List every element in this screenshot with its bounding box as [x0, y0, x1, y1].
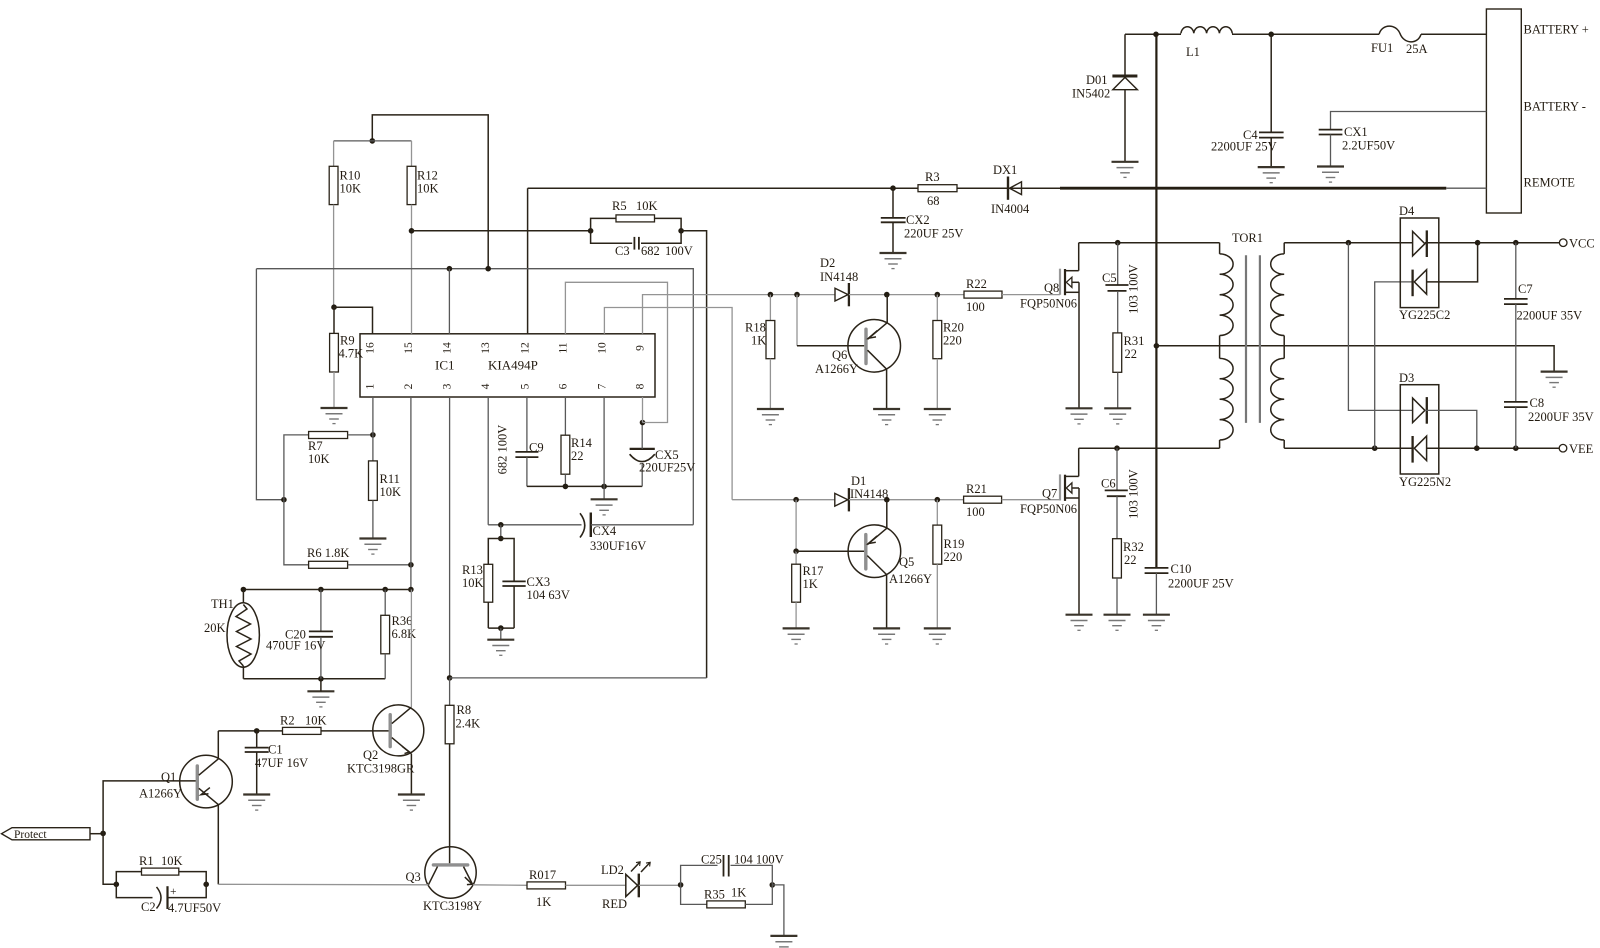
capacitor C5 103 100V	[1102, 243, 1141, 333]
resistor R6 1.8K	[284, 500, 411, 569]
node dot R6 pin2	[408, 562, 414, 568]
svg-text:330UF16V: 330UF16V	[590, 539, 646, 553]
wire LED to C25 R35	[639, 884, 681, 886]
svg-text:Q6: Q6	[832, 348, 847, 362]
resistor R12 10K	[407, 141, 438, 231]
node dot R5C3 left	[588, 228, 594, 234]
svg-text:220UF25V: 220UF25V	[639, 461, 695, 475]
wire left drop to R7 R6	[256, 269, 284, 500]
svg-text:7: 7	[597, 383, 609, 389]
svg-text:KTC3198GR: KTC3198GR	[347, 762, 415, 776]
wire lower row D1 to R21	[849, 499, 964, 501]
svg-text:220UF 25V: 220UF 25V	[904, 227, 963, 241]
svg-text:10K: 10K	[380, 485, 402, 499]
svg-text:103 100V: 103 100V	[1127, 264, 1141, 314]
ground under R13 CX3	[487, 640, 514, 656]
svg-text:R12: R12	[417, 169, 438, 183]
svg-text:1K: 1K	[536, 895, 551, 909]
svg-text:Q1: Q1	[161, 770, 176, 784]
svg-text:682 100V: 682 100V	[496, 425, 510, 475]
svg-text:+: +	[170, 886, 177, 898]
wire pin15 vertical	[411, 231, 413, 334]
ground center tap	[1541, 372, 1568, 388]
svg-text:682: 682	[641, 244, 660, 258]
ground under R20	[924, 409, 951, 425]
resistor R19 220	[933, 500, 964, 629]
svg-text:10K: 10K	[462, 576, 484, 590]
svg-text:R017: R017	[529, 868, 556, 882]
capacitor CX2 220UF 25V	[881, 188, 964, 253]
svg-text:15: 15	[403, 342, 415, 354]
node junction dot C4 top	[1268, 32, 1274, 38]
svg-text:10: 10	[597, 342, 609, 354]
svg-text:REMOTE: REMOTE	[1524, 176, 1576, 190]
svg-text:16: 16	[365, 342, 377, 354]
node dot R10 R12 top bar	[370, 138, 376, 144]
node dot R17 top	[793, 497, 799, 503]
ground under TH1 row	[307, 691, 334, 707]
ground under Q5	[873, 628, 900, 644]
svg-text:YG225C2: YG225C2	[1399, 308, 1450, 322]
transistor Q1 A1266Y	[139, 731, 232, 884]
transformer TOR1 primary	[1220, 231, 1263, 448]
wire ground stub pin7	[603, 486, 605, 499]
wire pin9 stub	[643, 295, 836, 334]
svg-text:Q2: Q2	[363, 748, 378, 762]
wire ground stub R13	[500, 628, 502, 640]
svg-text:R20: R20	[943, 321, 964, 335]
svg-text:YG225N2: YG225N2	[1399, 475, 1451, 489]
svg-text:R9: R9	[340, 334, 355, 348]
node dot Q6 base elbow	[794, 292, 800, 298]
diode box D3 YG225N2	[1399, 371, 1451, 489]
wire R13 stub	[500, 525, 502, 539]
svg-text:6.8K: 6.8K	[392, 627, 417, 641]
svg-text:R6 1.8K: R6 1.8K	[307, 546, 349, 560]
ground under R17	[783, 628, 810, 644]
svg-text:IN4004: IN4004	[991, 202, 1030, 216]
node dot R18 top	[768, 292, 774, 298]
svg-text:10K: 10K	[305, 714, 327, 728]
ground under C10	[1143, 615, 1170, 631]
capacitor CX5 220UF25V	[630, 423, 696, 487]
ground under Q7	[1066, 615, 1093, 631]
svg-text:R13: R13	[462, 563, 483, 577]
node dot pin14	[447, 266, 453, 272]
svg-text:4.7UF50V: 4.7UF50V	[168, 901, 221, 915]
diode D2 IN4148	[820, 256, 858, 306]
wire protect to Q1 base and R1	[103, 781, 196, 884]
fuse FU1 25A	[1371, 26, 1428, 56]
LED LD2 RED	[601, 862, 650, 911]
battery terminal block	[1486, 9, 1588, 213]
svg-text:10K: 10K	[417, 182, 439, 196]
svg-text:10K: 10K	[161, 854, 183, 868]
svg-text:6: 6	[558, 383, 570, 389]
resistor R13 10K	[462, 539, 501, 629]
ground under R18	[757, 409, 784, 425]
svg-text:RED: RED	[602, 897, 627, 911]
capacitor CX3 104 63V	[501, 539, 570, 629]
ground under R19	[924, 628, 951, 644]
wire REMOTE line	[528, 187, 1487, 189]
svg-text:9: 9	[635, 345, 647, 351]
svg-text:C8: C8	[1530, 396, 1545, 410]
wire pin12 to remote	[527, 188, 529, 334]
node dot R14 bottom	[563, 484, 569, 490]
wire sec bottom to D4 lower	[1375, 282, 1413, 448]
ground under R32	[1104, 615, 1131, 631]
svg-text:C9: C9	[529, 441, 544, 455]
svg-text:D2: D2	[820, 256, 835, 270]
svg-text:FQP50N06: FQP50N06	[1020, 297, 1077, 311]
node dot R12 bottom	[409, 228, 415, 234]
node dot C5 top	[1115, 240, 1121, 246]
capacitor C9 682 100V	[496, 397, 544, 486]
wire CX4 row left	[488, 524, 581, 526]
capacitor C3 682 100V	[591, 231, 693, 258]
svg-text:Protect: Protect	[14, 829, 47, 841]
resistor R31 22	[1113, 333, 1144, 408]
node dot pin13	[485, 266, 491, 272]
svg-text:Q5: Q5	[899, 555, 914, 569]
wire pin11 elbow route	[565, 282, 667, 422]
svg-text:R5: R5	[612, 199, 627, 213]
svg-text:BATTERY -: BATTERY -	[1524, 100, 1586, 114]
svg-text:DX1: DX1	[993, 163, 1017, 177]
svg-text:Q7: Q7	[1042, 487, 1057, 501]
wire R13 CX3 bottom bar	[488, 627, 514, 629]
svg-text:A1266Y: A1266Y	[815, 362, 858, 376]
svg-text:VEE: VEE	[1569, 442, 1594, 456]
svg-text:12: 12	[520, 342, 532, 354]
capacitor C8 2200UF 35V	[1504, 396, 1594, 448]
capacitor C6 103 100V	[1101, 448, 1141, 539]
svg-text:100V: 100V	[665, 244, 693, 258]
node dot sec bottom	[1372, 445, 1378, 451]
transistor Q2 KTC3198GR	[347, 590, 424, 795]
svg-text:IN4148: IN4148	[850, 487, 888, 501]
wire battery plus top rail	[1125, 33, 1379, 35]
resistor R20 220	[933, 295, 964, 409]
ground under pin7	[591, 499, 618, 515]
svg-text:1K: 1K	[751, 334, 766, 348]
svg-text:22: 22	[1124, 553, 1137, 567]
svg-text:R2: R2	[280, 714, 295, 728]
transistor Q8 FQP50N06	[1020, 243, 1079, 409]
svg-text:IC1: IC1	[435, 358, 455, 373]
svg-text:13: 13	[480, 342, 492, 354]
svg-text:10K: 10K	[340, 182, 362, 196]
wire lower row left	[732, 499, 835, 501]
svg-text:C7: C7	[1518, 282, 1533, 296]
svg-text:2200UF 25V: 2200UF 25V	[1211, 140, 1277, 154]
diode D4 upper	[1413, 230, 1478, 257]
ground under Q8	[1066, 408, 1093, 424]
transistor Q7 FQP50N06	[1020, 448, 1079, 615]
svg-text:FU1: FU1	[1371, 41, 1393, 55]
node dot TH1 top	[241, 587, 247, 593]
svg-text:C2: C2	[141, 900, 156, 914]
diode D3 lower	[1413, 436, 1560, 463]
svg-text:R7: R7	[308, 439, 323, 453]
ground under R11	[359, 539, 386, 555]
resistor R21 100	[964, 482, 1060, 519]
ground under C4	[1258, 167, 1285, 183]
diode box D4 YG225C2	[1399, 204, 1450, 322]
wire pin1 vertical	[372, 397, 374, 435]
svg-text:220: 220	[944, 550, 963, 564]
svg-text:CX3: CX3	[527, 575, 551, 589]
resistor R32 22	[1113, 539, 1144, 615]
svg-text:1: 1	[365, 383, 377, 389]
svg-text:220: 220	[943, 334, 962, 348]
svg-text:1K: 1K	[731, 886, 746, 900]
svg-text:R22: R22	[966, 277, 987, 291]
svg-text:104 100V: 104 100V	[734, 853, 784, 867]
resistor R10 10K	[329, 141, 361, 307]
svg-text:R11: R11	[380, 472, 400, 486]
svg-text:KTC3198Y: KTC3198Y	[423, 899, 482, 913]
wire row pins 13 14 net	[256, 269, 693, 525]
node dot C25 R35 right	[770, 882, 776, 888]
transistor Q3 KTC3198Y	[406, 847, 483, 913]
node dot C20 top	[318, 587, 324, 593]
node dot R13 CX3 top	[498, 536, 504, 542]
wire pin3 vertical	[449, 397, 451, 678]
ground under Q2	[398, 795, 425, 811]
svg-text:R10: R10	[340, 169, 361, 183]
resistor R017 1K	[527, 868, 626, 909]
terminal VEE	[1559, 442, 1593, 456]
svg-text:Q8: Q8	[1044, 281, 1059, 295]
svg-text:2.4K: 2.4K	[456, 717, 481, 731]
wire to ground right of R35	[772, 885, 784, 936]
resistor R7 10K	[284, 432, 373, 500]
svg-text:5: 5	[520, 383, 532, 389]
svg-text:L1: L1	[1186, 45, 1200, 59]
svg-text:47UF 16V: 47UF 16V	[255, 756, 308, 770]
node dot pin16 R9 R10	[331, 304, 337, 310]
wire battery minus	[1331, 112, 1487, 130]
wire Q1 collector to C1 R2	[218, 730, 256, 732]
capacitor C7 2200UF 35V	[1504, 243, 1582, 402]
node dot Q5 emitter	[884, 497, 890, 503]
svg-text:D01: D01	[1086, 73, 1108, 87]
svg-text:2200UF 35V: 2200UF 35V	[1517, 309, 1583, 323]
svg-text:R8: R8	[457, 703, 472, 717]
node junction dot trunk top	[1153, 32, 1159, 38]
svg-text:TH1: TH1	[211, 597, 234, 611]
capacitor C20 470UF 16V	[266, 590, 333, 679]
svg-text:BATTERY +: BATTERY +	[1524, 23, 1589, 37]
transistor Q6 A1266Y	[797, 295, 901, 409]
svg-text:20K: 20K	[204, 621, 226, 635]
svg-text:104 63V: 104 63V	[527, 588, 570, 602]
svg-text:LD2: LD2	[601, 863, 624, 877]
svg-text:2200UF 25V: 2200UF 25V	[1168, 577, 1234, 591]
wire fuse to battery box	[1421, 33, 1486, 35]
svg-text:R19: R19	[944, 537, 965, 551]
svg-text:3: 3	[442, 383, 454, 389]
thermistor TH1 20K	[204, 590, 259, 679]
svg-text:R32: R32	[1123, 540, 1144, 554]
svg-text:R31: R31	[1124, 334, 1145, 348]
svg-text:R14: R14	[571, 436, 593, 450]
svg-text:FQP50N06: FQP50N06	[1020, 502, 1077, 516]
wire R10 R12 top bar	[334, 140, 412, 142]
svg-text:C1: C1	[268, 743, 283, 757]
svg-text:A1266Y: A1266Y	[889, 572, 932, 586]
ground under CX2	[880, 253, 907, 269]
node dot pin1 R7 R11	[370, 432, 376, 438]
svg-text:C6: C6	[1101, 477, 1116, 491]
node dot D4 out	[1475, 240, 1481, 246]
resistor R9 4.7K	[330, 307, 364, 408]
resistor R8 2.4K	[445, 678, 480, 863]
svg-text:C10: C10	[1171, 562, 1192, 576]
wire TH1 row	[243, 589, 411, 591]
node dot R13 stub top	[498, 522, 504, 528]
node dot pin7 bottom	[601, 484, 607, 490]
svg-text:1K: 1K	[803, 577, 818, 591]
svg-text:IN5402: IN5402	[1072, 87, 1110, 101]
node dot C7 top	[1513, 240, 1519, 246]
node dot C25 R35 left	[678, 882, 684, 888]
svg-text:TOR1: TOR1	[1232, 231, 1263, 245]
ground under R9	[321, 408, 348, 424]
svg-text:100: 100	[966, 505, 985, 519]
svg-text:68: 68	[927, 194, 940, 208]
svg-text:R1: R1	[139, 854, 154, 868]
resistor R1 10K	[116, 854, 206, 884]
svg-text:10K: 10K	[308, 452, 330, 466]
wire ground stub	[320, 679, 322, 692]
node dot R1 C2 right	[203, 882, 209, 888]
diode D01 IN5402	[1072, 34, 1137, 162]
node dot pin3 R8	[447, 675, 453, 681]
svg-text:CX1: CX1	[1344, 125, 1368, 139]
transformer TOR1 secondary	[1271, 243, 1285, 449]
resistor R2 10K	[257, 714, 389, 735]
resistor R36 6.8K	[381, 590, 416, 679]
svg-text:22: 22	[1125, 347, 1138, 361]
node dot center tap	[1154, 343, 1160, 349]
resistor R17 1K	[792, 500, 824, 629]
svg-text:D1: D1	[851, 474, 866, 488]
wire pin14 stub	[448, 269, 450, 334]
ground under R35	[770, 936, 797, 948]
ground under CX1	[1317, 167, 1344, 183]
wire top jumper pin13 to R10 R12 tops	[372, 115, 488, 269]
wire pin2 vertical	[410, 397, 412, 590]
svg-text:2200UF 35V: 2200UF 35V	[1528, 410, 1594, 424]
wire TH1 bottom row	[243, 678, 385, 680]
resistor R11 10K	[369, 435, 402, 539]
ground under C1	[243, 795, 270, 811]
diode DX1 IN4004	[991, 163, 1030, 216]
node dot D3 out	[1474, 445, 1480, 451]
diode D4 lower	[1413, 243, 1478, 297]
node dot C6 top	[1114, 445, 1120, 451]
node dot R20 top	[935, 292, 941, 298]
svg-text:R21: R21	[966, 482, 987, 496]
svg-text:2.2UF50V: 2.2UF50V	[1342, 139, 1395, 153]
wire pin16 elbow	[334, 307, 373, 334]
svg-text:A1266Y: A1266Y	[139, 787, 182, 801]
svg-text:R17: R17	[803, 564, 824, 578]
svg-text:25A: 25A	[1406, 42, 1428, 56]
svg-text:C3: C3	[615, 244, 630, 258]
capacitor C25 104 100V	[681, 853, 784, 885]
svg-text:KIA494P: KIA494P	[488, 358, 538, 373]
wire pin8 vertical	[642, 397, 644, 423]
capacitor C10 2200UF 25V	[1145, 562, 1234, 615]
wire R12 node to R5 C3 left	[412, 230, 591, 232]
svg-text:VCC: VCC	[1569, 237, 1595, 251]
inductor L1	[1181, 27, 1232, 59]
node dot R1 C2 left	[114, 882, 120, 888]
transformer core	[1246, 255, 1260, 423]
svg-text:IN4148: IN4148	[820, 270, 858, 284]
wire Q3 to R017	[473, 884, 527, 887]
svg-text:470UF 16V: 470UF 16V	[266, 639, 325, 653]
node dot pin8 CX5	[640, 420, 646, 426]
svg-text:D4: D4	[1399, 204, 1415, 218]
svg-text:R36: R36	[392, 614, 413, 628]
resistor R22 100	[964, 277, 1060, 314]
capacitor C2 4.7UF50V	[116, 884, 221, 915]
node dot R7 R6 left	[281, 497, 287, 503]
wire pin7 vertical	[603, 397, 605, 486]
svg-text:14: 14	[442, 342, 454, 354]
svg-text:C5: C5	[1102, 271, 1117, 285]
node dot C1 R2	[254, 728, 260, 734]
connector Protect	[2, 828, 104, 841]
svg-text:CX4: CX4	[593, 524, 617, 538]
wire drain row upper	[1079, 242, 1220, 244]
svg-text:4.7K: 4.7K	[339, 347, 364, 361]
wire drain row lower	[1079, 447, 1220, 449]
resistor R14 22	[561, 397, 593, 486]
node dot bottom row ground	[318, 676, 324, 682]
diode D1 IN4148	[835, 474, 888, 511]
node dot R5C3 right	[678, 228, 684, 234]
wire pin10 route	[604, 308, 732, 500]
node dot sec top	[1346, 240, 1352, 246]
svg-text:22: 22	[571, 449, 584, 463]
IC U1 KIA494P box	[360, 334, 655, 397]
svg-text:R18: R18	[745, 321, 766, 335]
wire pin4 vertical	[487, 397, 489, 525]
svg-text:4: 4	[480, 383, 492, 389]
wire VCC row	[1478, 242, 1560, 244]
wire center tap line	[1156, 346, 1554, 372]
resistor R18 1K	[745, 295, 775, 409]
svg-text:C25: C25	[701, 853, 722, 867]
node dot R19 top	[935, 497, 941, 503]
capacitor CX4 330UF16V	[580, 513, 693, 554]
ground under R31	[1104, 408, 1131, 424]
wire upper row D2 to R22	[849, 294, 964, 296]
wire feedback row to trunk	[450, 677, 707, 679]
node dot Q6 emitter	[884, 292, 890, 298]
resistor R3 68	[918, 170, 957, 208]
wire R5C3 right node to trunk down	[681, 231, 707, 678]
svg-text:CX2: CX2	[906, 213, 930, 227]
svg-text:Q3: Q3	[406, 870, 421, 884]
svg-text:D3: D3	[1399, 371, 1414, 385]
